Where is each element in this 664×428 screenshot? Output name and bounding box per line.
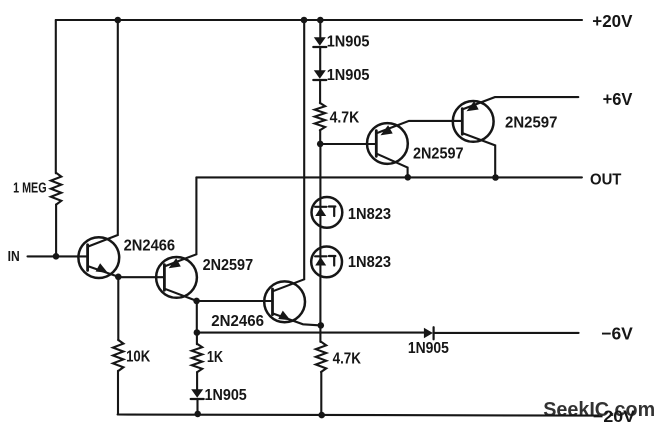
wire D2 to 4.7K (319, 81, 321, 104)
svg-text:+20V: +20V (592, 11, 632, 31)
wire D1 to D2 (319, 48, 321, 71)
wire emitter to 10K (117, 277, 119, 340)
node bottom rail / D3 (194, 411, 201, 418)
svg-text:1N905: 1N905 (327, 67, 370, 84)
svg-text:1N823: 1N823 (348, 206, 392, 223)
svg-text:OUT: OUT (590, 171, 622, 188)
node 1K top junction (194, 329, 201, 336)
svg-text:2N2466: 2N2466 (211, 313, 264, 330)
zener Z2 triangle (315, 257, 326, 265)
diode D3 1N905 (pointing down) (191, 389, 203, 398)
svg-text:2N2597: 2N2597 (505, 115, 557, 132)
transistor Q3 emitter arrow (278, 311, 290, 321)
node top rail left dot (301, 17, 308, 24)
wire -6V line right segment (434, 332, 579, 334)
svg-text:1N905: 1N905 (327, 34, 370, 51)
transistor Q3 base bar (271, 289, 274, 315)
node Q1 emitter junction (115, 274, 122, 281)
wire Q2 collector lead (165, 289, 197, 301)
wire Q5 collector to OUT (462, 133, 495, 177)
zener Z2 cathode bar (315, 255, 326, 257)
wire -6V line left segment (197, 332, 424, 334)
svg-text:2N2466: 2N2466 (124, 238, 176, 255)
resistor R2 10K (113, 340, 123, 371)
svg-text:1N905: 1N905 (408, 340, 449, 357)
wire Q4 collector to OUT (376, 154, 407, 178)
wire Q4 emitter to Q5 base (376, 121, 462, 133)
wire left vertical to 1 MEG (55, 20, 57, 173)
diode D1 1N905 (pointing down) (314, 37, 326, 46)
resistor R1 1 MEG (51, 173, 61, 205)
transistor Q2 base bar (163, 265, 166, 291)
wire Q3 collector riser (273, 20, 305, 291)
zener Z1 cathode bar (315, 206, 326, 208)
transistor Q5 base bar (461, 109, 464, 135)
wire Q1 collector riser (88, 20, 118, 247)
node OUT / Q4 collector (405, 174, 412, 181)
wire Q2 collector down to -6V line (196, 301, 198, 333)
svg-text:1N905: 1N905 (205, 387, 248, 404)
wire 10K to bottom rail (117, 371, 119, 415)
resistor R5 4.7K lower (316, 342, 326, 372)
node IN junction (53, 253, 60, 260)
wire Q2 collector to Q3 base (197, 300, 273, 302)
wire 1K to diode D3 (196, 372, 198, 389)
wire 1 MEG to IN node (55, 204, 57, 256)
transistor Q3 circle (264, 281, 305, 322)
transistor Q2 circle (156, 257, 197, 298)
transistor Q4 emitter arrow (381, 125, 393, 135)
transistor Q1 circle (78, 237, 119, 278)
node Q2 collector junction (193, 298, 200, 305)
svg-text:1K: 1K (207, 349, 224, 366)
transistor Q1 emitter arrow (96, 263, 108, 273)
wire OUT line (196, 176, 582, 178)
svg-text:−6V: −6V (601, 324, 633, 344)
node top rail / Q1 collector (115, 17, 122, 24)
svg-text:1 MEG: 1 MEG (13, 181, 47, 197)
svg-text:10K: 10K (126, 349, 151, 366)
diode D2 1N905 (pointing down) (314, 70, 326, 79)
svg-text:2N2597: 2N2597 (413, 146, 464, 163)
node zener bottom junction (318, 322, 325, 329)
svg-text:2N2597: 2N2597 (203, 257, 254, 274)
resistor R4 4.7K upper (315, 103, 325, 130)
svg-text:4.7K: 4.7K (333, 351, 362, 368)
zener Z1 reference mark (329, 207, 335, 217)
wire 4.7K lower to bottom rail (320, 372, 322, 415)
transistor Q1 base bar (86, 245, 89, 271)
zener Z1 1N823 circle (312, 197, 343, 228)
svg-text:4.7K: 4.7K (330, 110, 360, 127)
wire Q4 base lead (320, 143, 376, 145)
zener Z2 1N823 circle (311, 247, 342, 278)
transistor Q5 emitter arrow (467, 101, 479, 111)
svg-text:SeekIC.com: SeekIC.com (543, 398, 655, 421)
wire zener chain vertical (319, 144, 321, 342)
svg-text:1N823: 1N823 (348, 254, 392, 271)
transistor Q2 emitter arrow (169, 258, 181, 268)
wire Q5 emitter to +6V (462, 97, 578, 109)
transistor Q5 circle (453, 101, 494, 142)
node OUT / Q5 collector (492, 174, 499, 181)
svg-text:+6V: +6V (603, 89, 633, 109)
resistor R3 1K (192, 344, 202, 372)
wire +20V top rail (56, 19, 582, 21)
wire IN lead (28, 255, 88, 257)
svg-text:IN: IN (8, 248, 20, 265)
wire Q3 emitter lead (273, 313, 321, 325)
wire Q1 emitter lead (88, 266, 118, 277)
wire D3 to bottom rail (196, 399, 198, 414)
node Q4 base junction (317, 141, 324, 148)
wire Q2 emitter riser to OUT corner (165, 177, 197, 266)
transistor Q4 circle (367, 123, 408, 164)
node top rail right dot (317, 17, 324, 24)
wire top rail to diode D1 (319, 20, 321, 37)
node bottom rail / 4.7K (318, 412, 325, 419)
wire Q1 emitter to Q2 base (118, 276, 164, 278)
wire bottom rail (118, 415, 598, 416)
zener Z1 triangle (315, 208, 326, 216)
zener Z2 reference mark (329, 256, 335, 266)
transistor Q4 base bar (375, 131, 378, 157)
wire 4.7K to Q4 base node (319, 130, 321, 144)
diode D4 1N905 on -6V line (pointing right) (424, 328, 433, 338)
wire 1K top lead (196, 333, 198, 345)
